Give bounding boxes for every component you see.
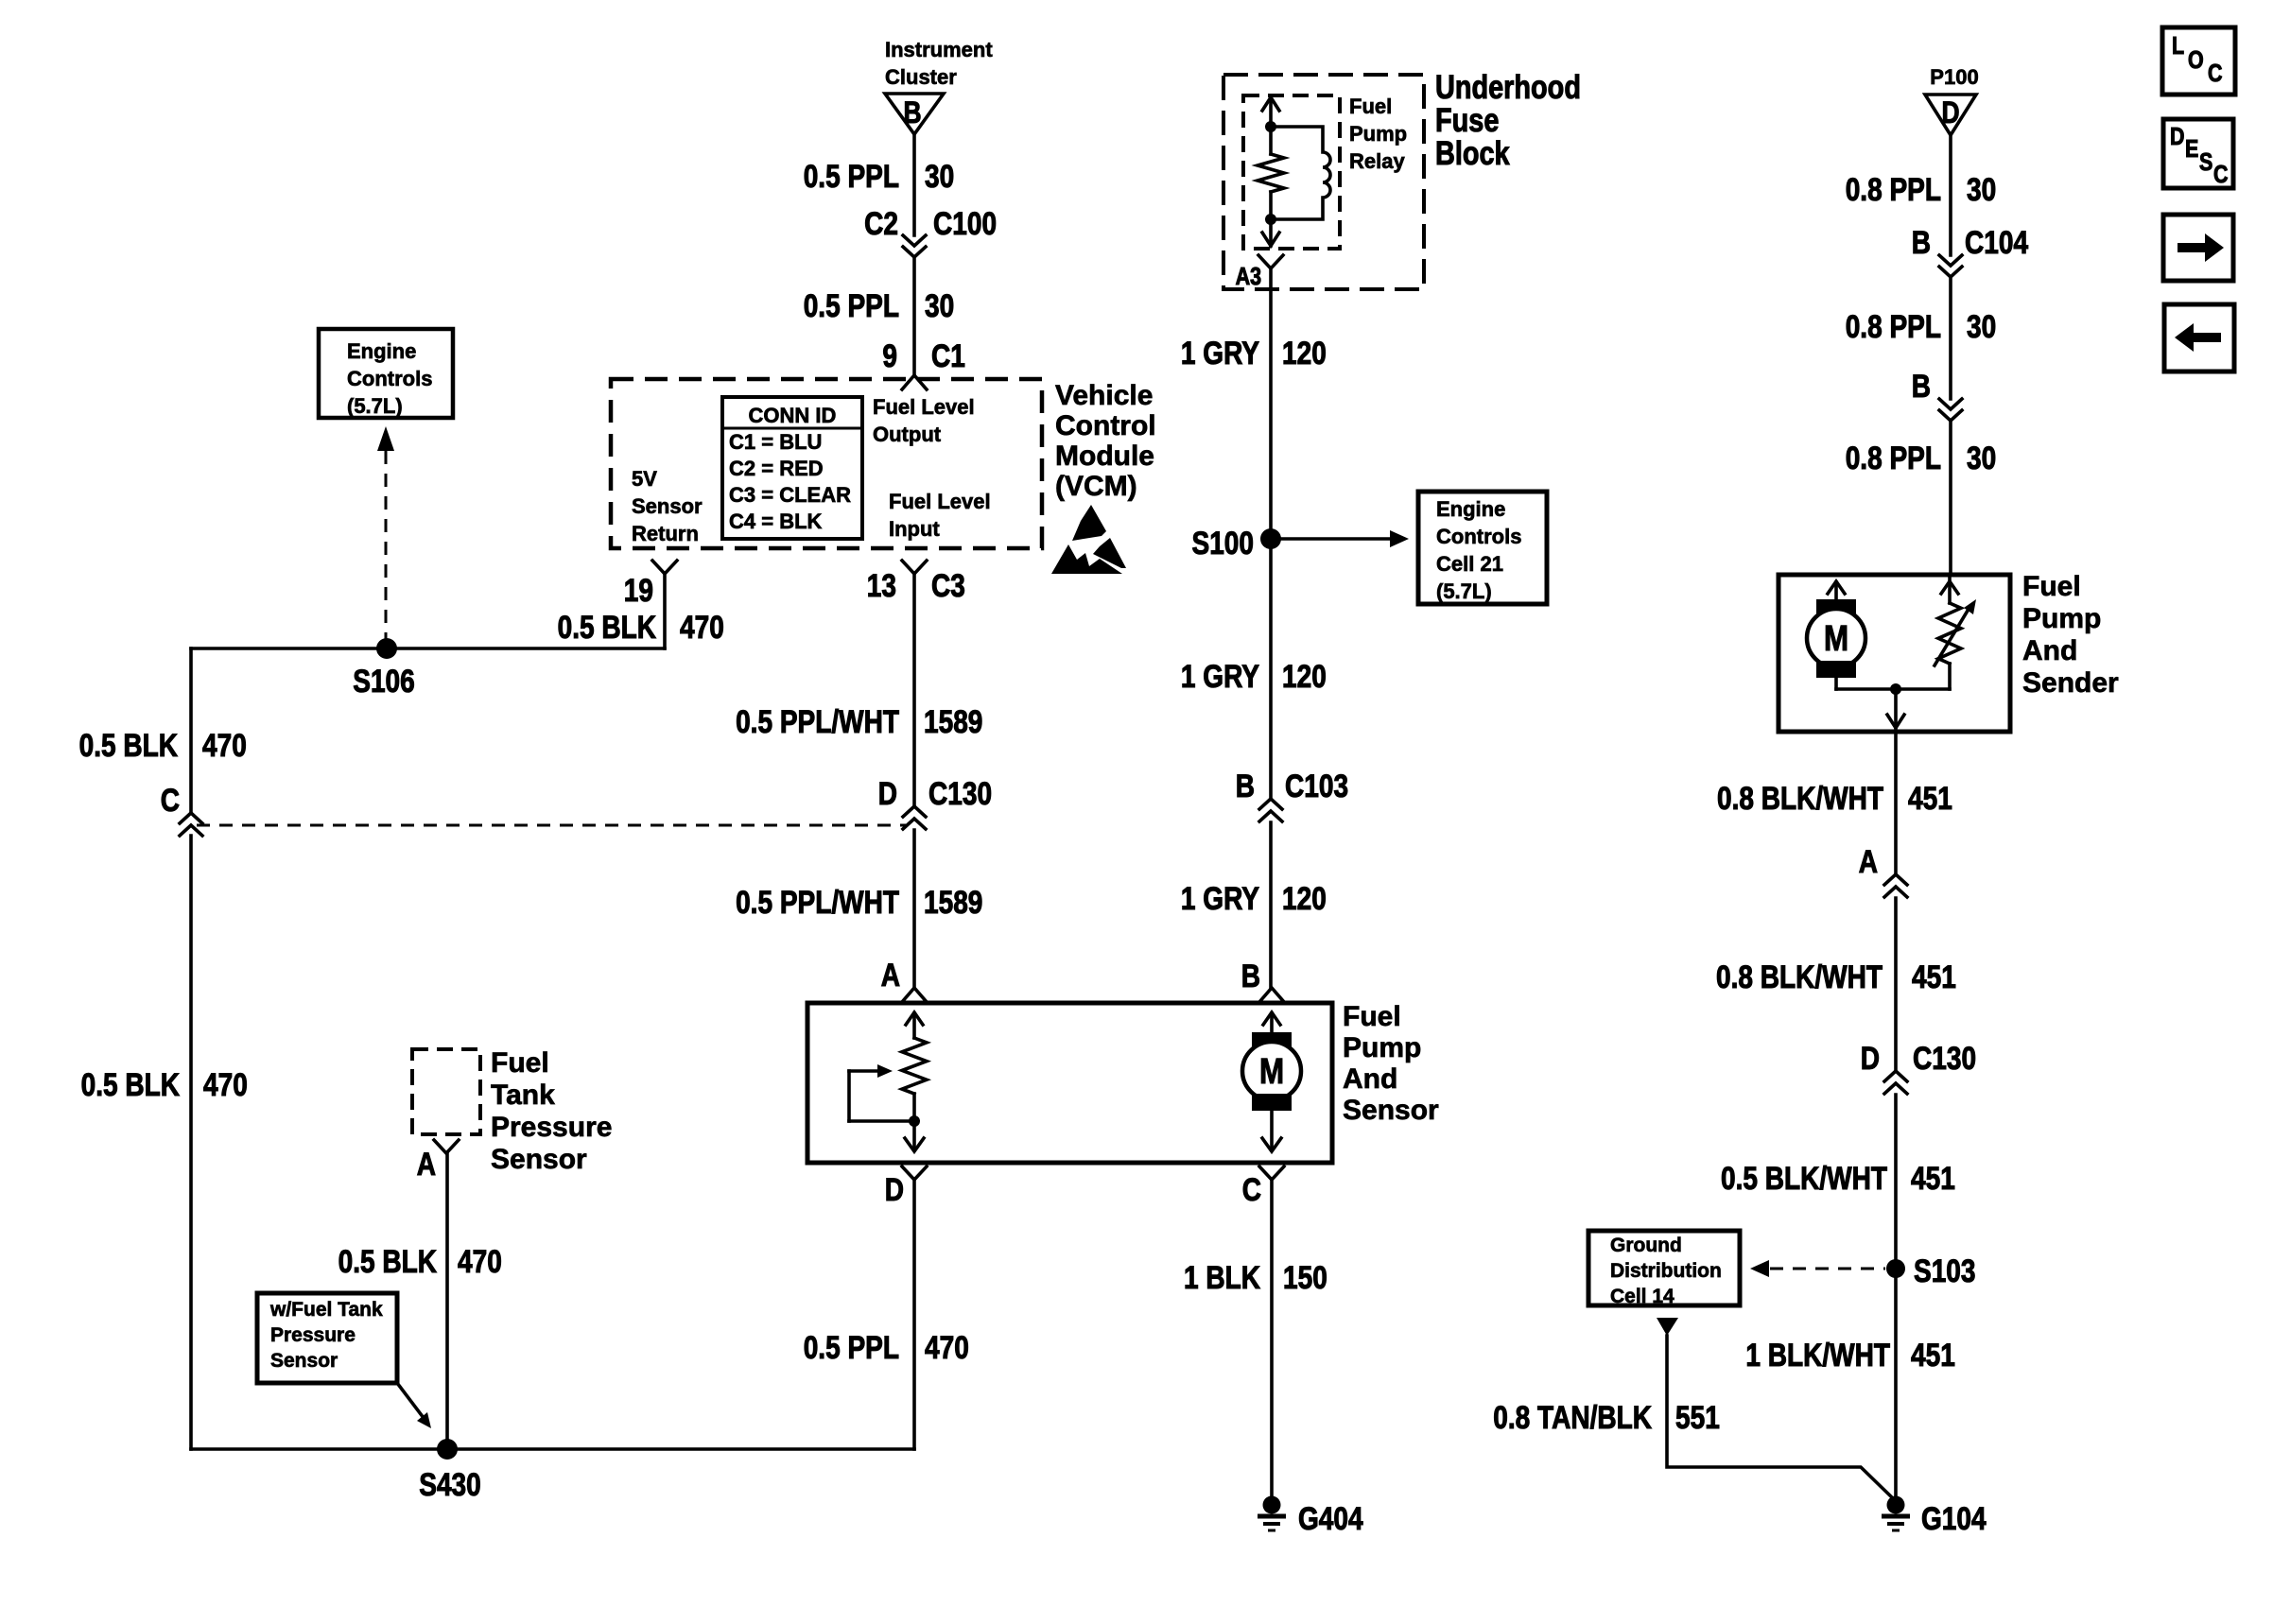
junction dot on sender wire xyxy=(909,1115,920,1127)
svg-text:C: C xyxy=(2208,60,2222,87)
svg-text:C3 = CLEAR: C3 = CLEAR xyxy=(729,483,851,507)
terminal C at fuel pump and sensor xyxy=(1259,1166,1284,1180)
wire 0.5 PPL 470 from terminal D xyxy=(912,1180,916,1449)
component: Fuel Tank Pressure Sensor dashed box xyxy=(412,1049,480,1134)
arrowhead to Engine Controls xyxy=(377,426,394,451)
svg-text:0.8 PPL: 0.8 PPL xyxy=(1846,308,1941,344)
wiper arrow of fuel level sensor xyxy=(849,1064,909,1121)
svg-text:CONN ID: CONN ID xyxy=(749,404,837,427)
svg-text:A: A xyxy=(881,957,900,993)
wire 0.5 BLK 470 from tank pressure sensor xyxy=(445,1153,449,1449)
svg-text:13: 13 xyxy=(867,567,896,603)
wire 0.5 BLK 470 left upper xyxy=(189,648,193,811)
svg-text:B: B xyxy=(1236,768,1255,803)
svg-text:0.5 PPL: 0.5 PPL xyxy=(804,158,899,194)
svg-text:C: C xyxy=(1242,1171,1261,1207)
svg-text:120: 120 xyxy=(1282,658,1327,694)
svg-text:30: 30 xyxy=(925,158,954,194)
reference box: Engine Controls Cell 21 (5.7L) xyxy=(1418,492,1547,604)
relay contact wire with arrows xyxy=(1258,97,1284,246)
svg-text:D: D xyxy=(1861,1040,1880,1076)
svg-text:551: 551 xyxy=(1675,1399,1720,1435)
svg-text:G104: G104 xyxy=(1921,1500,1987,1536)
svg-text:120: 120 xyxy=(1282,335,1327,371)
svg-text:C100: C100 xyxy=(933,205,997,241)
svg-text:470: 470 xyxy=(203,1066,248,1102)
svg-text:C4 = BLK: C4 = BLK xyxy=(729,510,823,533)
svg-text:M: M xyxy=(1824,618,1848,659)
svg-text:D: D xyxy=(878,775,897,811)
ground G104 symbol xyxy=(1882,1496,1910,1531)
dashed wire from S106 to Engine Controls xyxy=(385,451,388,648)
arrow from S100 to Engine Controls Cell 21 xyxy=(1271,530,1409,547)
svg-text:1 GRY: 1 GRY xyxy=(1181,880,1259,916)
svg-text:G404: G404 xyxy=(1298,1500,1363,1536)
svg-text:1 GRY: 1 GRY xyxy=(1181,335,1259,371)
reference box: Engine Controls (5.7L) xyxy=(319,329,453,418)
svg-text:D: D xyxy=(1941,96,1959,130)
splice S106 junction dot xyxy=(376,638,397,659)
svg-text:C103: C103 xyxy=(1285,768,1348,803)
svg-text:1 GRY: 1 GRY xyxy=(1181,658,1259,694)
svg-text:A: A xyxy=(417,1146,436,1182)
legend box left arrow xyxy=(2164,304,2234,371)
svg-text:30: 30 xyxy=(1967,308,1996,344)
ground G404 symbol xyxy=(1258,1496,1286,1531)
legend box right arrow xyxy=(2163,215,2233,281)
svg-text:0.5 BLK: 0.5 BLK xyxy=(558,609,657,645)
svg-text:0.8 BLK/WHT: 0.8 BLK/WHT xyxy=(1716,959,1883,994)
component: Fuel Pump And Sensor box xyxy=(807,1003,1332,1163)
inline connector C100 xyxy=(903,235,926,257)
inline connector C104 xyxy=(1939,255,1962,277)
wire 0.5 PPL 30 from instrument cluster xyxy=(912,134,916,235)
svg-text:D: D xyxy=(885,1171,904,1207)
legend box DESC xyxy=(2163,119,2233,189)
terminal 13 C3 at VCM xyxy=(902,561,927,574)
svg-text:C2 = RED: C2 = RED xyxy=(729,457,824,480)
ESD sensitivity symbol xyxy=(1051,505,1126,574)
relay junction dot bottom xyxy=(1265,214,1276,225)
svg-text:451: 451 xyxy=(1908,780,1952,816)
svg-text:0.5 BLK: 0.5 BLK xyxy=(338,1243,438,1279)
inline connector C130 (fuel level) xyxy=(903,806,926,829)
svg-text:C104: C104 xyxy=(1965,224,2029,260)
svg-text:1589: 1589 xyxy=(924,884,982,920)
svg-text:470: 470 xyxy=(680,609,724,645)
svg-text:1589: 1589 xyxy=(924,703,982,739)
svg-text:B: B xyxy=(1241,958,1260,993)
svg-text:470: 470 xyxy=(925,1329,969,1365)
svg-text:470: 470 xyxy=(458,1243,502,1279)
motor M1 fuel pump (in sensor box) xyxy=(1242,1012,1301,1151)
inline connector A xyxy=(1884,874,1907,897)
svg-text:C: C xyxy=(2213,161,2228,188)
arrowhead below Ground Distribution box xyxy=(1657,1318,1678,1336)
wire 0.5 PPL/WHT 1589 lower xyxy=(912,830,916,988)
svg-text:150: 150 xyxy=(1283,1259,1327,1295)
connector triangle B (Instrument Cluster) xyxy=(885,94,944,134)
terminal 19 at VCM xyxy=(652,561,677,574)
svg-text:30: 30 xyxy=(1967,171,1996,207)
wire bottom horizontal to S430 xyxy=(191,1447,914,1451)
svg-text:120: 120 xyxy=(1282,880,1327,916)
dashed wire from Ground Distribution arrow to S103 xyxy=(1770,1268,1885,1270)
svg-text:C2: C2 xyxy=(864,205,898,241)
relay coil branch xyxy=(1271,127,1330,219)
wire 0.5 BLK 470 from pin 19 xyxy=(663,574,667,648)
svg-text:E: E xyxy=(2185,135,2198,163)
wire 0.5 PPL 30 to VCM xyxy=(912,257,916,375)
wire 0.5 PPL/WHT 1589 upper xyxy=(912,574,916,805)
svg-text:S106: S106 xyxy=(353,663,414,699)
svg-text:30: 30 xyxy=(1967,440,1996,475)
CONN ID table xyxy=(722,397,862,539)
svg-text:0.5 BLK: 0.5 BLK xyxy=(81,1066,181,1102)
svg-text:M: M xyxy=(1259,1051,1284,1092)
svg-text:S430: S430 xyxy=(419,1466,480,1502)
terminal B at fuel pump and sensor xyxy=(1259,988,1284,1002)
svg-text:P100: P100 xyxy=(1930,65,1978,89)
svg-text:B: B xyxy=(903,96,921,130)
svg-text:0.5 BLK/WHT: 0.5 BLK/WHT xyxy=(1721,1160,1887,1196)
dashed wire from connector C to connector D C130 xyxy=(197,824,906,827)
svg-text:0.8 TAN/BLK: 0.8 TAN/BLK xyxy=(1493,1399,1652,1435)
terminal C1 at VCM xyxy=(902,375,927,389)
svg-text:451: 451 xyxy=(1911,1160,1955,1196)
relay K1: Fuel Pump Relay dashed box xyxy=(1243,95,1340,249)
wire 0.8 BLK/WHT 451 middle xyxy=(1894,898,1898,1071)
svg-text:1 BLK/WHT: 1 BLK/WHT xyxy=(1745,1337,1890,1373)
junction dot in sender box xyxy=(1890,683,1901,695)
svg-text:S103: S103 xyxy=(1914,1253,1975,1288)
terminal A3 at fuse block xyxy=(1258,255,1283,268)
wire from junction to box bottom with arrow xyxy=(1887,689,1904,728)
svg-text:19: 19 xyxy=(624,572,653,608)
svg-text:30: 30 xyxy=(925,287,954,323)
svg-text:9: 9 xyxy=(882,337,897,373)
splice S100 junction dot xyxy=(1260,528,1281,549)
svg-text:0.5 BLK: 0.5 BLK xyxy=(79,727,179,763)
component: Underhood Fuse Block dashed box xyxy=(1223,75,1424,289)
svg-text:C1: C1 xyxy=(931,337,965,373)
wire 0.8 PPL 30 lower xyxy=(1949,421,1952,575)
legend box LOC xyxy=(2162,27,2235,95)
svg-text:C1 = BLU: C1 = BLU xyxy=(729,430,822,454)
wire 1 BLK 150 to G404 xyxy=(1270,1180,1274,1498)
svg-text:0.5 PPL: 0.5 PPL xyxy=(804,1329,899,1365)
module U1: Vehicle Control Module dashed box xyxy=(611,379,1042,548)
svg-text:0.5 PPL: 0.5 PPL xyxy=(804,287,899,323)
svg-text:C130: C130 xyxy=(1913,1040,1976,1076)
inline connector C103 xyxy=(1259,799,1282,821)
arrow from w/Fuel Tank callout to S430 xyxy=(397,1383,431,1428)
splice S103 junction dot xyxy=(1886,1259,1905,1278)
splice S430 junction dot xyxy=(437,1439,458,1460)
svg-text:S: S xyxy=(2199,148,2212,176)
svg-text:C3: C3 xyxy=(931,567,965,603)
wire 0.5 BLK 470 horizontal at S106 xyxy=(191,647,665,650)
svg-text:0.5 PPL/WHT: 0.5 PPL/WHT xyxy=(736,703,899,739)
component: Fuel Pump And Sender box xyxy=(1778,575,2010,732)
reference box: Ground Distribution Cell 14 xyxy=(1588,1231,1740,1307)
svg-text:B: B xyxy=(1912,368,1931,404)
wire 1 GRY 120 upper xyxy=(1269,268,1273,798)
svg-text:L: L xyxy=(2172,32,2184,60)
relay junction dot top xyxy=(1265,121,1276,132)
svg-text:0.5 PPL/WHT: 0.5 PPL/WHT xyxy=(736,884,899,920)
svg-text:451: 451 xyxy=(1911,1337,1955,1373)
svg-text:1 BLK: 1 BLK xyxy=(1184,1259,1260,1295)
wire 0.8 BLK/WHT 451 upper xyxy=(1894,732,1898,874)
wire 0.8 TAN/BLK 551 to G104 xyxy=(1667,1336,1896,1501)
svg-text:0.8 PPL: 0.8 PPL xyxy=(1846,171,1941,207)
svg-text:O: O xyxy=(2188,46,2204,74)
svg-text:A: A xyxy=(1859,843,1878,879)
arrowhead pointing left from S103 dashed wire xyxy=(1750,1260,1769,1277)
wire 0.8 PPL 30 from P100 xyxy=(1949,135,1952,255)
wire 0.5 BLK/WHT 451 lower to G104 xyxy=(1894,1095,1898,1498)
svg-text:S100: S100 xyxy=(1192,525,1254,561)
connector triangle D (P100) xyxy=(1925,95,1976,135)
sender variable resistor R (in sender box) xyxy=(1896,575,1976,689)
svg-text:451: 451 xyxy=(1912,959,1956,994)
inline connector B xyxy=(1939,399,1962,421)
svg-text:B: B xyxy=(1912,224,1931,260)
wire 1 GRY 120 lower xyxy=(1269,822,1273,988)
sender resistor R (fuel level) inside sensor box xyxy=(902,1012,927,1151)
svg-text:C130: C130 xyxy=(928,775,992,811)
svg-text:0.8 BLK/WHT: 0.8 BLK/WHT xyxy=(1717,780,1883,816)
terminal A at fuel pump and sensor xyxy=(902,988,927,1002)
svg-text:C: C xyxy=(161,782,180,818)
terminal D at fuel pump and sensor xyxy=(902,1166,927,1180)
inline connector C (left) xyxy=(180,813,202,836)
svg-text:A3: A3 xyxy=(1236,263,1261,290)
wire 0.8 PPL 30 middle xyxy=(1949,277,1952,399)
wire 0.5 BLK 470 left lower xyxy=(189,836,193,1449)
svg-text:0.8 PPL: 0.8 PPL xyxy=(1846,440,1941,475)
svg-text:470: 470 xyxy=(202,727,247,763)
terminal A at fuel tank pressure sensor xyxy=(434,1140,459,1153)
motor M2 fuel pump (in sender box) xyxy=(1807,581,1896,689)
callout box: w/Fuel Tank Pressure Sensor xyxy=(257,1293,397,1383)
inline connector C130 (right) xyxy=(1884,1071,1907,1094)
svg-text:D: D xyxy=(2170,123,2184,150)
